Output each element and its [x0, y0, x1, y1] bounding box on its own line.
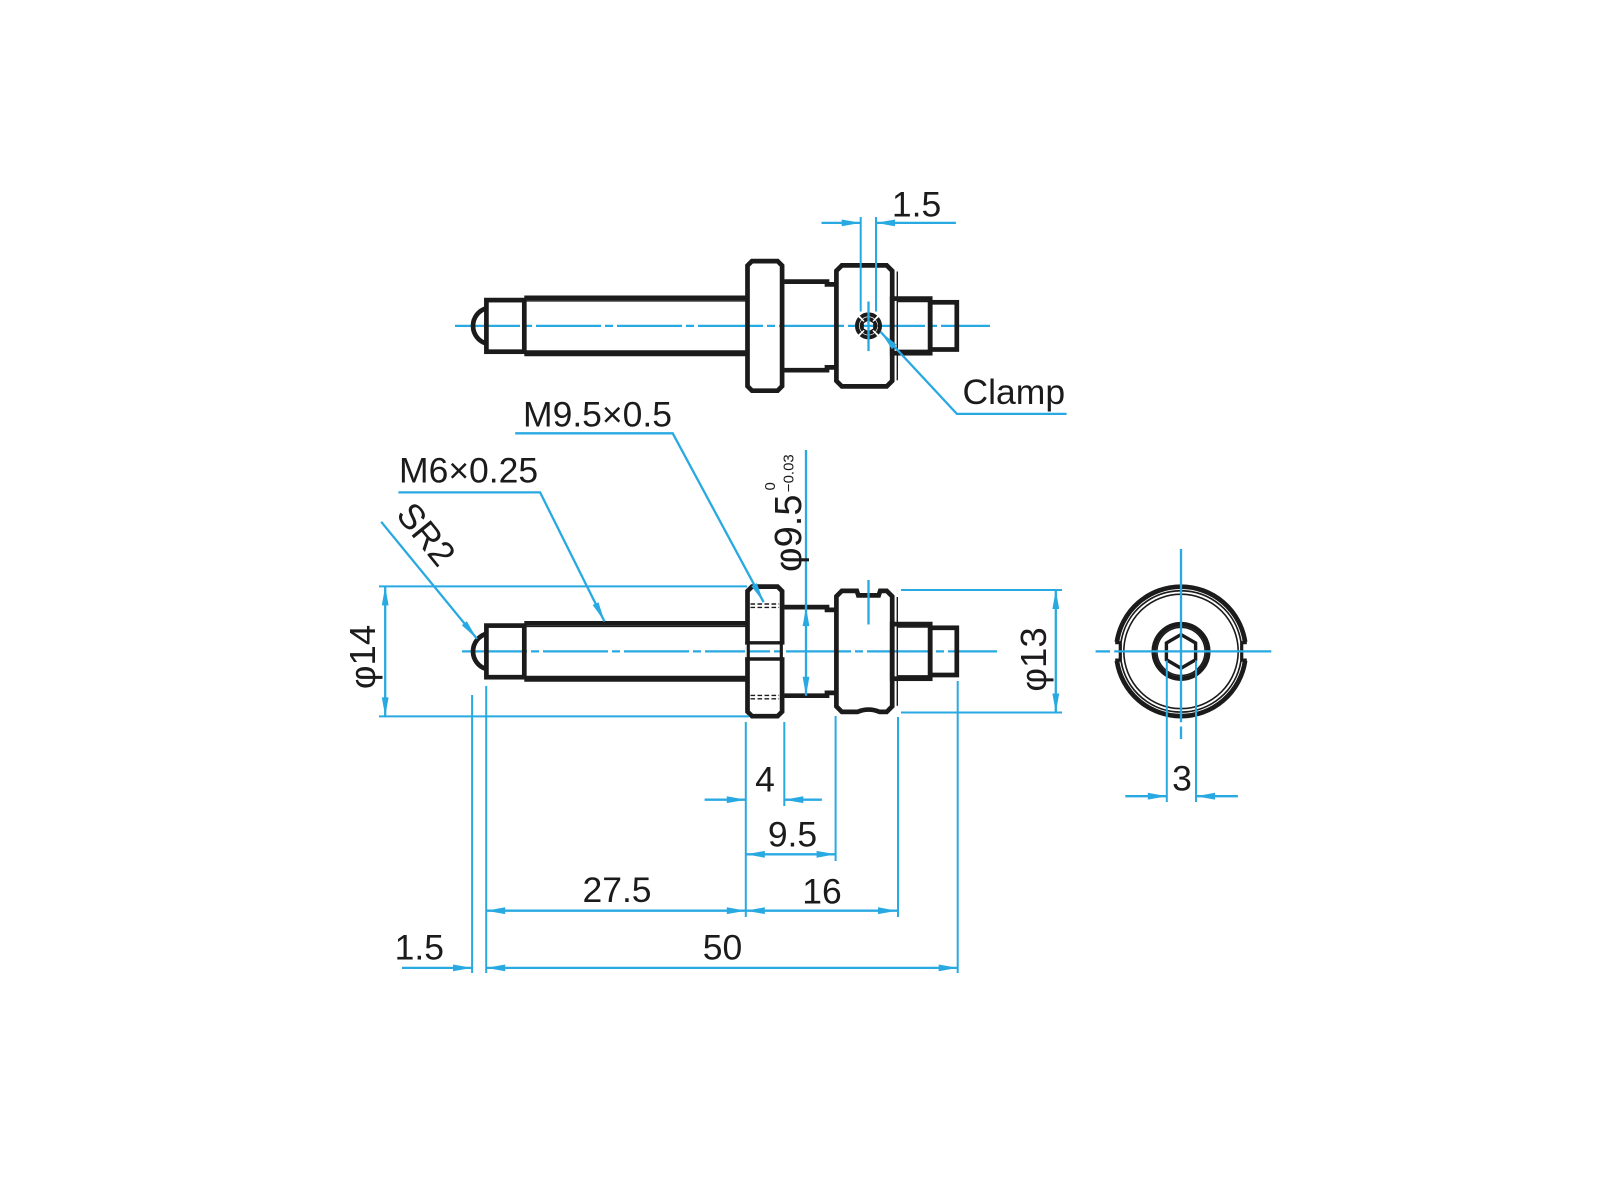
ext line collar face x=486.2 [485, 686, 487, 973]
arrow right-pointing at 860.7 [842, 220, 861, 227]
dim16 arrow right-pointing [878, 907, 897, 914]
dim27.5 arrow left-pointing [486, 907, 505, 914]
front view centerline [462, 650, 997, 652]
dim27.5 arrow right-pointing [727, 907, 746, 914]
svg-text:M6×0.25: M6×0.25 [399, 451, 538, 491]
ext line stub right x=957.7 [957, 681, 959, 973]
set screw outer circle [857, 314, 880, 337]
dimension phi14 [379, 586, 749, 716]
svg-text:16: 16 [802, 871, 842, 911]
nut body (front) with set screw notch and bottom recess arc [836, 591, 892, 712]
end view vertical centerline main [1180, 549, 1182, 722]
dimension 3 (hex socket) [1125, 661, 1238, 803]
dim3 line right part [1196, 795, 1238, 797]
phi14 arrow up [382, 586, 389, 605]
end view horizontal centerline left dash [1096, 650, 1110, 652]
M6x0.25 leader arrowhead [593, 602, 605, 621]
svg-text:50: 50 [703, 927, 743, 967]
end view horizontal centerline main [1114, 650, 1271, 652]
nut body [836, 265, 892, 386]
phi14 dimension line [384, 586, 386, 716]
phi13 nut circle lower arc [1121, 661, 1241, 712]
phi9.5 section and relief groove (front) [784, 607, 835, 696]
dimension 16 [746, 910, 897, 912]
hex socket [1166, 635, 1195, 669]
ext line ball tip x=472 [471, 695, 473, 973]
step thread thin lines [898, 302, 929, 351]
set screw hole centerline (front) [867, 580, 869, 625]
arrow left-pointing at 876 [876, 220, 895, 227]
dim4 arrow right-pointing [727, 796, 746, 803]
shaft thread thin lines [526, 301, 746, 351]
ball collar [486, 300, 524, 352]
phi13 extension line top [901, 589, 1062, 591]
dimension 27.5 [486, 910, 746, 912]
dim3 arrow left-pointing [1196, 793, 1215, 800]
spanner slot bottom left [1115, 642, 1122, 662]
Clamp leader arrowhead [881, 332, 897, 349]
svg-text:1.5: 1.5 [395, 927, 444, 967]
ball tip arc [473, 308, 486, 343]
phi14 arrow down [382, 697, 389, 716]
extension line left [860, 217, 862, 312]
dim9.5 arrow left-pointing [746, 851, 765, 858]
SR2 leader arrowhead [462, 621, 477, 639]
svg-text:9.5: 9.5 [768, 815, 817, 855]
phi9.5 section and relief groove [784, 282, 835, 371]
dimension 1.5 (top view, set screw offset) [822, 217, 956, 312]
end view vertical centerline bottom dash [1180, 727, 1182, 740]
dim50 arrow right-pointing [939, 965, 958, 972]
svg-text:Clamp: Clamp [963, 372, 1066, 412]
extension line right [875, 217, 877, 312]
phi14 flange circle lower arc [1117, 661, 1245, 716]
dimension 9.5 [746, 853, 836, 855]
set screw hex socket [863, 320, 874, 332]
Clamp leader [881, 332, 1067, 414]
phi9.5 dimension line [805, 450, 807, 696]
dimension line left part [822, 222, 861, 224]
svg-text:27.5: 27.5 [582, 870, 651, 910]
flange (lock nut) [748, 261, 783, 391]
step section (front) [892, 624, 930, 679]
dim9.5 arrow right-pointing [817, 851, 836, 858]
dim3 arrow right-pointing [1148, 793, 1167, 800]
end stub [930, 302, 957, 349]
svg-text:1.5: 1.5 [892, 185, 941, 225]
ball collar (front) [486, 626, 524, 678]
dim1.5 bottom arrow right-pointing [453, 965, 472, 972]
dim16 arrow left-pointing [746, 907, 765, 914]
dim50 arrow left-pointing [486, 965, 505, 972]
dimension line right part [876, 222, 956, 224]
dimension phi13 [901, 590, 1062, 713]
svg-text:M9.5×0.5: M9.5×0.5 [523, 395, 672, 435]
dimension 50 [486, 967, 958, 969]
phi9.5 arrow up [803, 607, 810, 626]
phi13 arrow up [1052, 590, 1059, 609]
svg-text:4: 4 [755, 760, 775, 800]
dim4 arrow left-pointing [784, 796, 803, 803]
shaft outline (front) [524, 623, 746, 679]
bottom dimension extension lines [472, 681, 958, 973]
dimension 4 [705, 799, 822, 801]
phi13 dimension line [1055, 590, 1057, 713]
dimension 1.5 (bottom) [402, 967, 472, 969]
ext line nut left x=835.6 [835, 716, 837, 861]
leader M9.5x0.5 [515, 433, 763, 602]
phi14 flange circle upper arc [1117, 587, 1245, 642]
leader M6x0.25 [398, 492, 604, 621]
phi5 stub circle [1157, 627, 1205, 675]
dim3 line left part [1125, 795, 1167, 797]
phi13 nut circle upper arc [1121, 591, 1241, 642]
phi13 extension line bottom [901, 712, 1062, 714]
step thread thin lines (front) [898, 627, 929, 676]
flange slot edge notch right (white) [783, 645, 785, 658]
ext line nut right x=898 [897, 717, 899, 917]
flange spanner slot lines [745, 643, 784, 659]
flange lock nut (front) [748, 587, 783, 717]
phi14 extension line top [379, 585, 747, 587]
step section [892, 299, 930, 354]
ext line hex left [1166, 661, 1168, 803]
phi14 extension line bottom [379, 715, 749, 717]
leader SR2 [381, 522, 477, 639]
shaft thread thin lines (front) [526, 626, 746, 676]
ext line hex right [1195, 661, 1197, 803]
ball tip arc (front) [473, 634, 486, 669]
shaft outline [524, 298, 746, 354]
phi6 step circle [1154, 624, 1208, 678]
nut right face thin line (front) [896, 597, 898, 706]
set screw vertical centerline [867, 302, 869, 352]
nut chamfer circle [1124, 594, 1238, 708]
spanner slot bottom right [1240, 642, 1247, 662]
ext line flange right x=784.3 [783, 722, 785, 806]
nut right face thin line [896, 272, 898, 381]
ext line flange left x=745.8 [745, 722, 747, 917]
svg-text:φ13: φ13 [1013, 627, 1054, 691]
svg-text:φ14: φ14 [342, 625, 383, 689]
set screw inner circle [861, 319, 875, 333]
phi13 arrow down [1052, 694, 1059, 713]
flange slot edge notch left (white) [745, 645, 747, 658]
phi9.5 arrow down [803, 677, 810, 696]
M9.5x0.5 leader arrowhead [751, 583, 763, 602]
end stub (front) [930, 628, 957, 675]
top view centerline [455, 325, 990, 327]
flange hidden thread dashed lines [751, 604, 780, 699]
svg-text:3: 3 [1172, 759, 1192, 799]
